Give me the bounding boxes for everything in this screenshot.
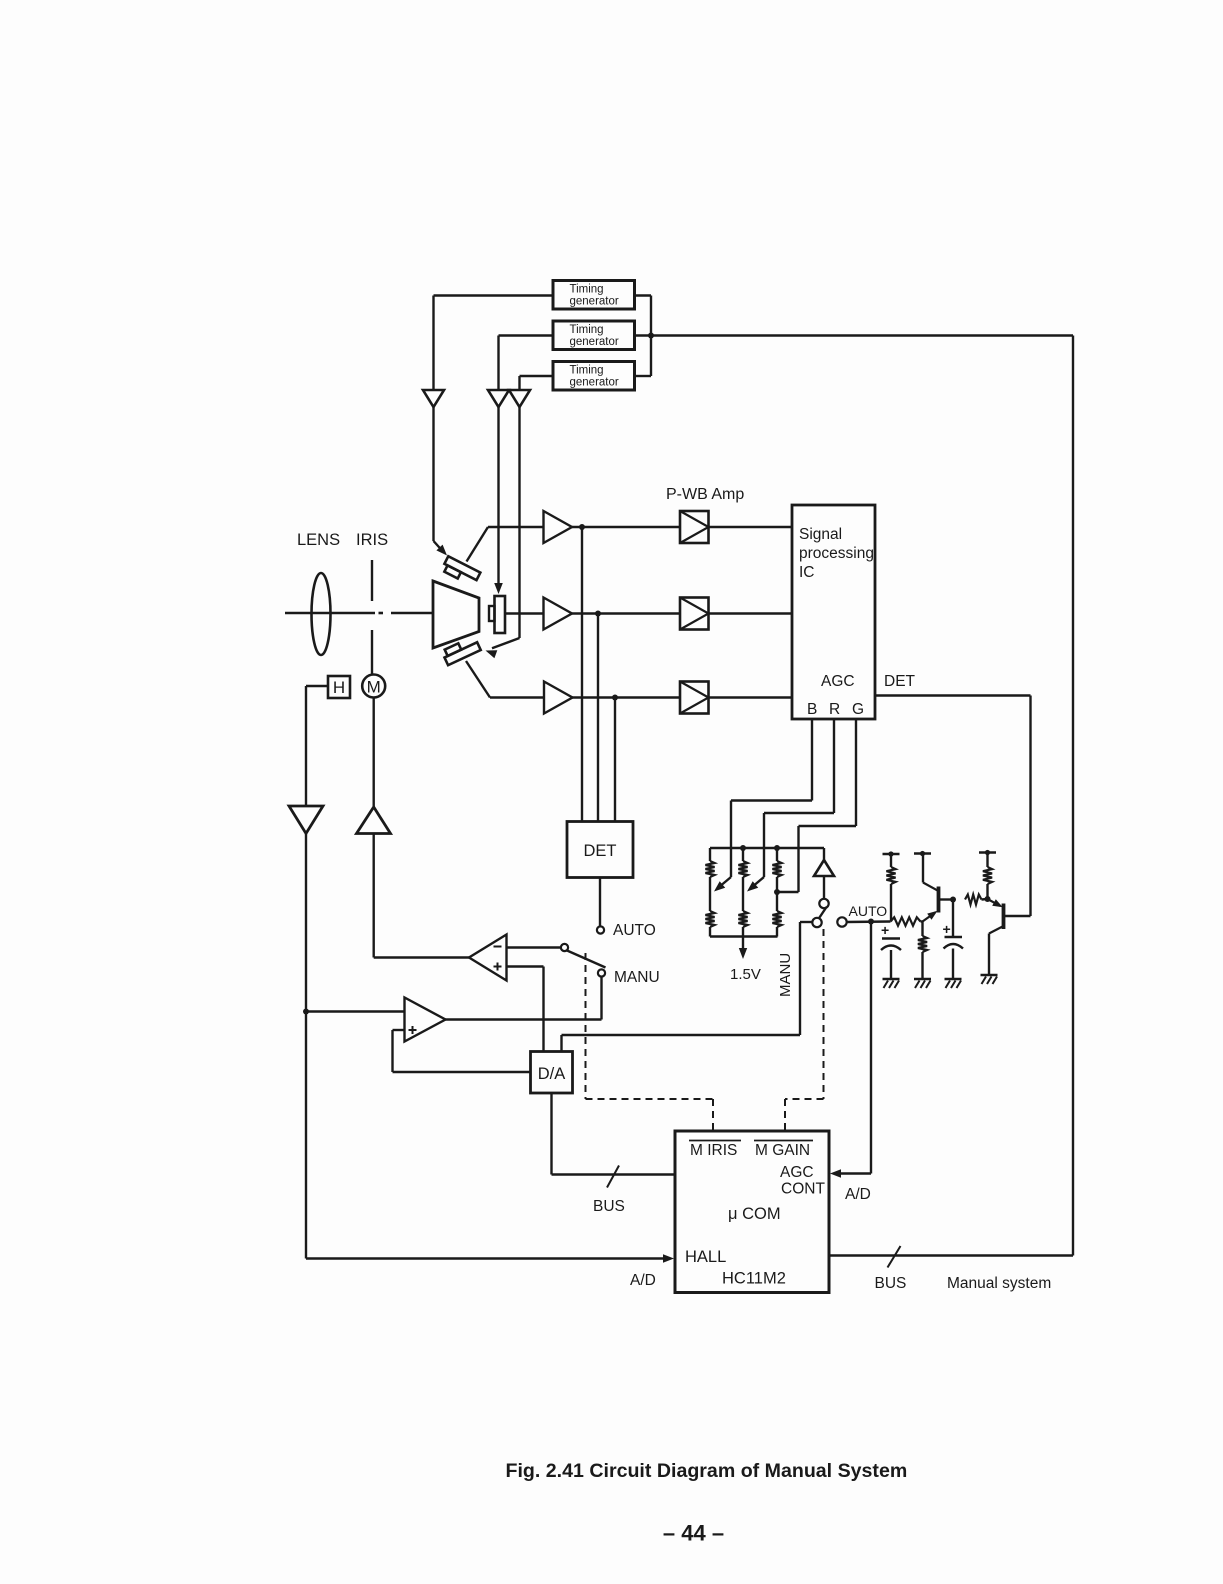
svg-text:M IRIS: M IRIS [690,1142,737,1159]
svg-text:IRIS: IRIS [356,531,388,549]
svg-text:DET: DET [584,842,617,860]
svg-text:generator: generator [570,336,619,348]
svg-text:MANU: MANU [777,953,794,997]
svg-text:AUTO: AUTO [613,922,656,939]
svg-text:HALL: HALL [685,1248,726,1266]
svg-text:– 44 –: – 44 – [663,1521,724,1546]
svg-text:AUTO: AUTO [849,903,888,919]
svg-text:B: B [807,701,817,718]
svg-text:generator: generator [570,295,619,307]
svg-text:processing: processing [799,545,874,562]
svg-text:BUS: BUS [593,1198,625,1215]
svg-text:Timing: Timing [570,324,604,336]
svg-text:HC11M2: HC11M2 [722,1270,786,1288]
svg-text:IC: IC [799,564,815,581]
svg-text:μ COM: μ COM [728,1205,781,1223]
svg-text:Timing: Timing [570,283,604,295]
svg-text:generator: generator [570,376,619,388]
svg-text:M: M [367,678,381,697]
svg-text:H: H [333,678,345,697]
svg-text:LENS: LENS [297,531,340,549]
svg-text:+: + [943,921,951,937]
svg-text:AGC: AGC [780,1164,814,1181]
svg-text:MANU: MANU [614,969,660,986]
svg-text:+: + [881,922,889,938]
svg-text:Fig. 2.41 Circuit Diagram of M: Fig. 2.41 Circuit Diagram of Manual Syst… [506,1460,908,1482]
svg-text:P-WB Amp: P-WB Amp [666,486,744,503]
svg-text:R: R [829,701,840,718]
svg-text:1.5V: 1.5V [730,966,761,983]
svg-text:M GAIN: M GAIN [755,1142,810,1159]
svg-text:CONT: CONT [781,1181,825,1198]
svg-text:Manual system: Manual system [947,1275,1051,1292]
svg-text:A/D: A/D [630,1272,656,1289]
svg-text:A/D: A/D [845,1186,871,1203]
svg-text:BUS: BUS [875,1275,907,1292]
svg-text:DET: DET [884,673,916,690]
svg-text:G: G [852,701,864,718]
svg-text:AGC: AGC [821,673,855,690]
svg-text:Timing: Timing [570,364,604,376]
svg-text:Signal: Signal [799,526,842,543]
svg-text:D/A: D/A [538,1065,566,1083]
